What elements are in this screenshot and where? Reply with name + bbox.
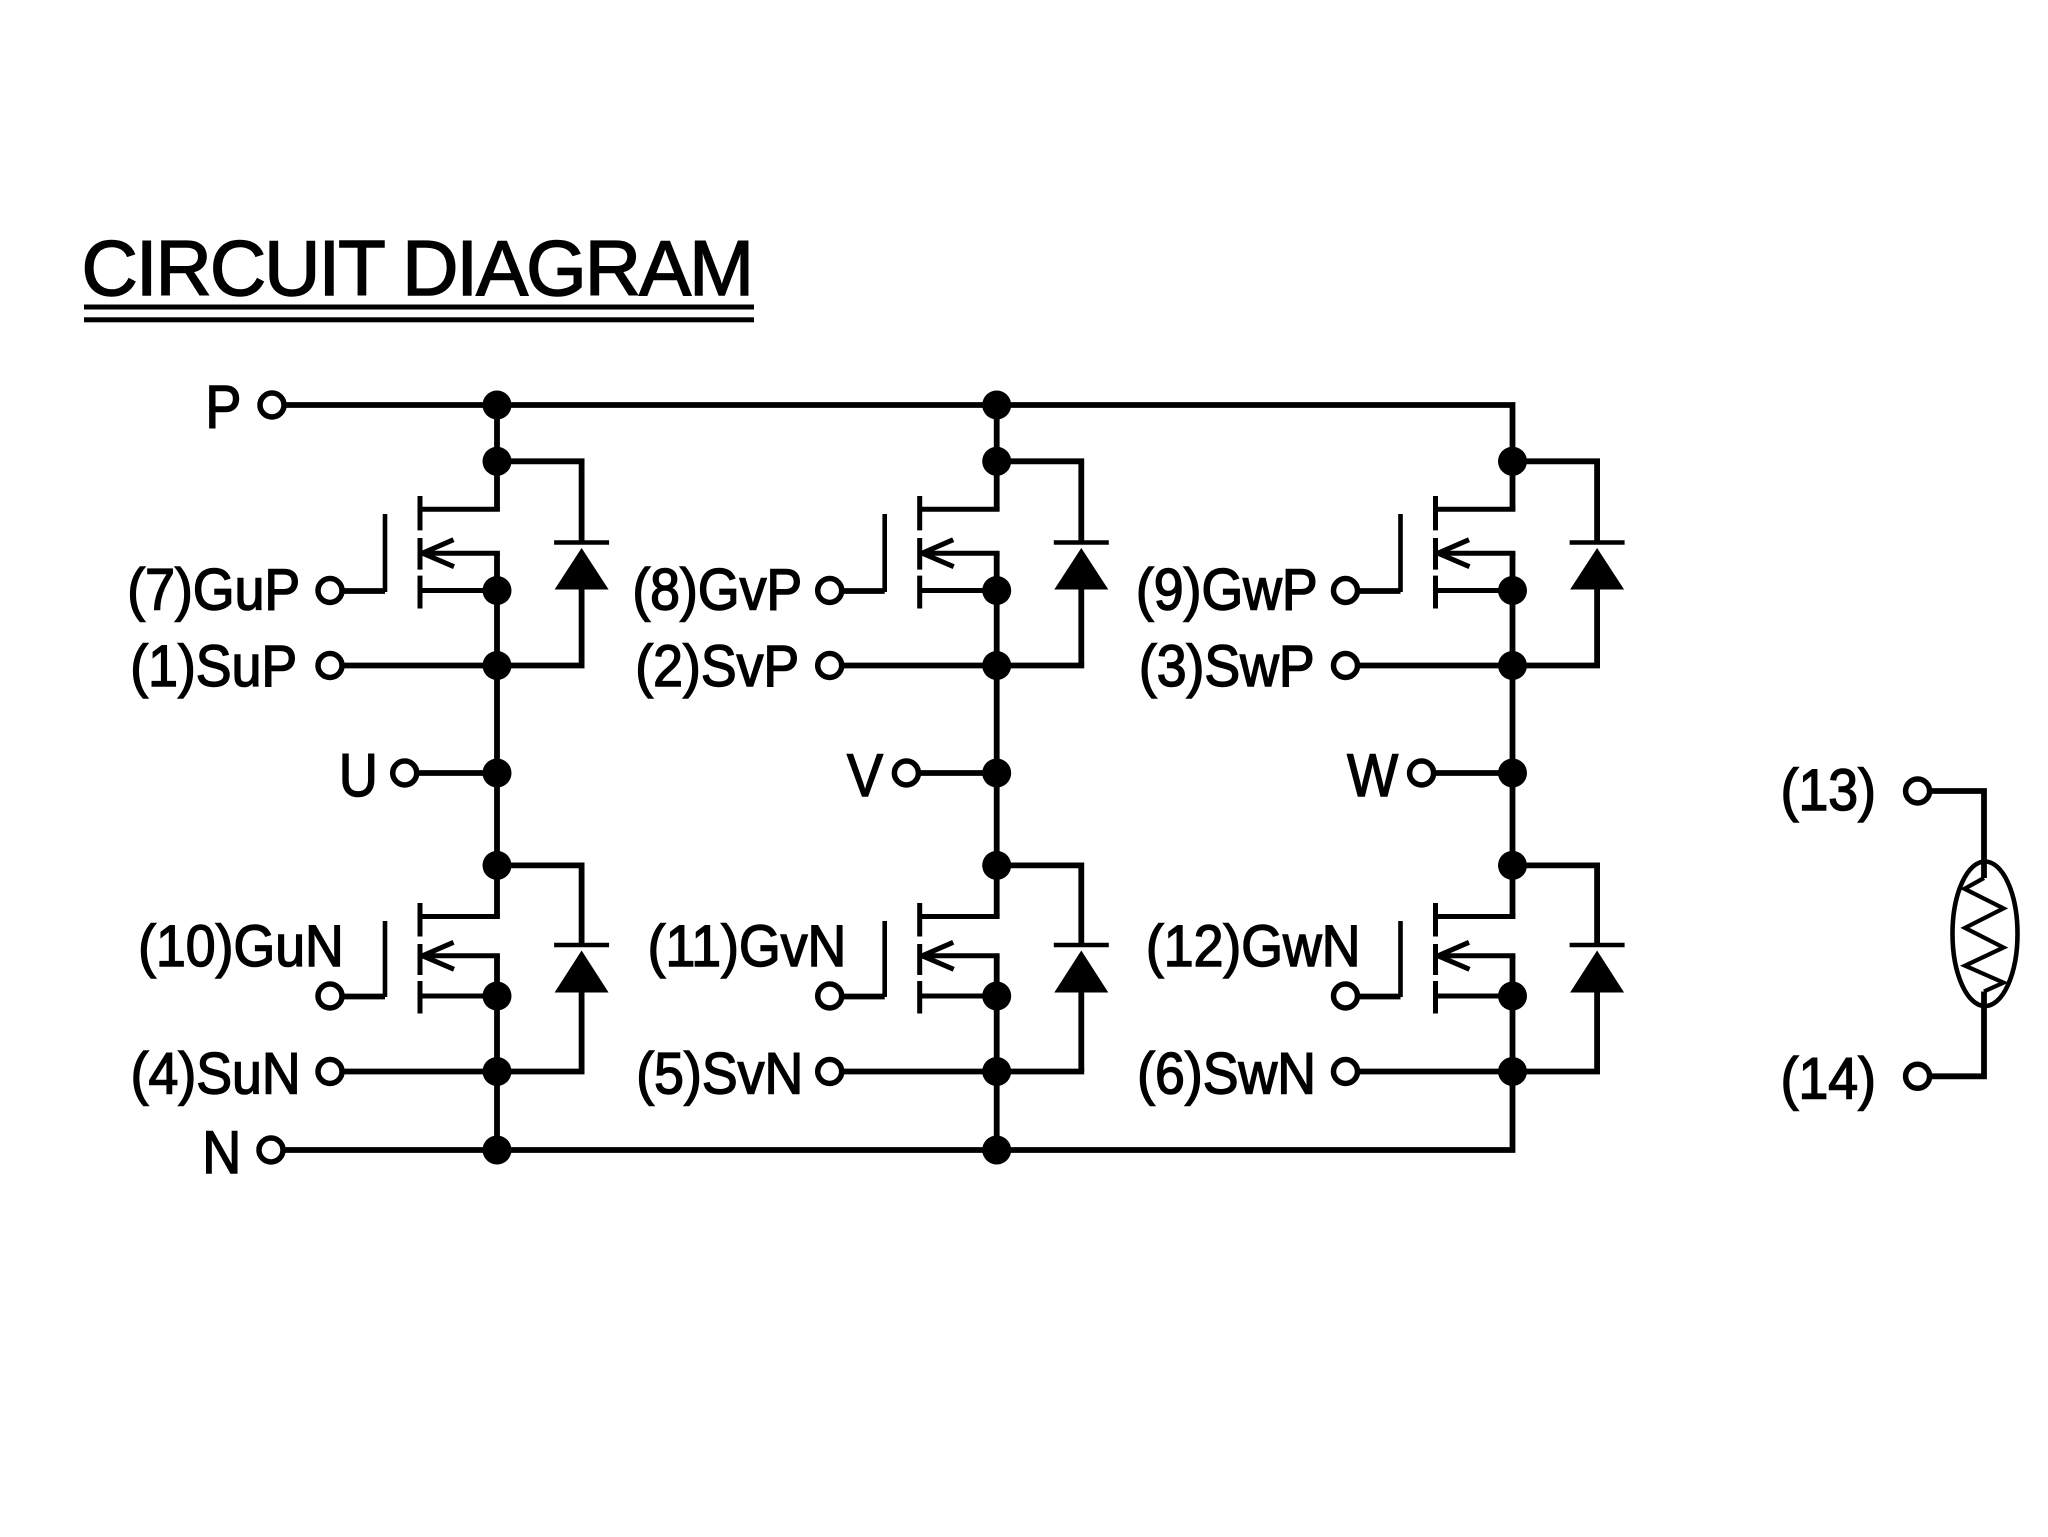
diode D2 (freewheel across Q2) (997, 461, 1109, 665)
wire leg V upper vertical (P rail to drain) (994, 405, 1000, 509)
wire leg W middle vertical (body Q3 through W node to drain Q6) (1510, 553, 1516, 916)
svg-text:P: P (205, 374, 241, 441)
wire leg U lower vertical (body Q4 to N rail) (494, 956, 500, 1150)
terminal (3)SwP source pin (1139, 633, 1358, 698)
node (4)SuN junction (483, 1057, 512, 1086)
diode D4 (freewheel across Q4) (497, 865, 609, 1071)
terminal (2)SvP source pin (635, 633, 841, 698)
svg-text:N: N (202, 1119, 241, 1186)
svg-text:W: W (1347, 742, 1398, 809)
transistor Q1 ((7)GuP upper MOSFET, phase U high side) (385, 496, 500, 609)
terminal (13) thermistor pin (1781, 757, 1930, 822)
node source junction Q4 (483, 982, 512, 1011)
node (6)SwN junction (1498, 1057, 1527, 1086)
terminal N (202, 1119, 283, 1186)
transistor Q3 ((9)GwP upper MOSFET, phase W high side) (1401, 496, 1516, 609)
wire leg U middle vertical (body Q1 through U node to drain Q4) (494, 553, 500, 916)
svg-text:(4)SuN: (4)SuN (131, 1041, 301, 1106)
svg-text:U: U (339, 742, 378, 809)
svg-text:(2)SvP: (2)SvP (635, 633, 799, 698)
node phase V junction (982, 759, 1011, 788)
svg-text:(3)SwP: (3)SwP (1139, 633, 1315, 698)
svg-text:V: V (847, 742, 883, 809)
node (2)SvP junction (982, 651, 1011, 680)
terminal phase V output (847, 742, 997, 809)
node drain/diode split lower leg U (483, 851, 512, 880)
wire (3)SwP to diode D3 anode (1359, 663, 1600, 669)
node (1)SuP junction (483, 651, 512, 680)
diode D3 (freewheel across Q3) (1513, 461, 1625, 665)
terminal P (205, 374, 284, 441)
wire P rail (287, 405, 1513, 509)
node phase W junction (1498, 759, 1527, 788)
wire (1)SuP to diode D1 anode (344, 663, 585, 669)
terminal (10)GuN gate pin (138, 913, 385, 1008)
wire thermistor RT to (14) (1931, 992, 1984, 1077)
wire leg V middle vertical (body Q2 through V node to drain Q5) (994, 553, 1000, 916)
svg-text:(14): (14) (1781, 1046, 1876, 1111)
terminal (11)GvN gate pin (648, 913, 885, 1008)
wire (4)SuN to diode D4 anode (344, 1069, 585, 1075)
terminal (4)SuN source pin (131, 1041, 342, 1106)
node drain/diode split lower leg W (1498, 851, 1527, 880)
terminal (12)GwN gate pin (1146, 913, 1401, 1008)
svg-text:(5)SvN: (5)SvN (636, 1041, 803, 1106)
node drain/diode split upper leg V (982, 447, 1011, 476)
wire (13) to thermistor RT (1931, 791, 1984, 878)
transistor Q2 ((8)GvP upper MOSFET, phase V high side) (885, 496, 1000, 609)
svg-text:(8)GvP: (8)GvP (632, 557, 802, 622)
transistor Q5 ((11)GvN lower MOSFET, phase V low side) (885, 903, 1000, 1014)
wire (2)SvP to diode D2 anode (844, 663, 1085, 669)
node P rail junction leg U (483, 391, 512, 420)
node (3)SwP junction (1498, 651, 1527, 680)
wire leg V lower vertical (body Q5 to N rail) (994, 956, 1000, 1150)
node source junction Q1 (483, 576, 512, 605)
node P rail junction leg V (982, 391, 1011, 420)
terminal phase W output (1347, 742, 1512, 809)
svg-text:(10)GuN: (10)GuN (138, 913, 344, 978)
terminal (14) thermistor pin (1781, 1046, 1930, 1111)
node source junction Q3 (1498, 576, 1527, 605)
svg-text:(1)SuP: (1)SuP (130, 633, 297, 698)
diode D5 (freewheel across Q5) (997, 865, 1109, 1071)
wire leg U upper vertical (P rail to drain) (494, 405, 500, 509)
wire N rail (286, 956, 1513, 1150)
svg-text:(7)GuP: (7)GuP (127, 557, 300, 622)
terminal (8)GvP gate pin (632, 557, 884, 622)
title CIRCUIT DIAGRAM (82, 224, 755, 322)
terminal phase U output (339, 742, 497, 809)
svg-text:(13): (13) (1781, 757, 1876, 822)
transistor Q6 ((12)GwN lower MOSFET, phase W low side) (1401, 903, 1516, 1014)
node (5)SvN junction (982, 1057, 1011, 1086)
node source junction Q6 (1498, 982, 1527, 1011)
svg-text:CIRCUIT DIAGRAM: CIRCUIT DIAGRAM (82, 224, 753, 312)
terminal (9)GwP gate pin (1136, 557, 1401, 622)
diode D6 (freewheel across Q6) (1513, 865, 1625, 1071)
terminal (6)SwN source pin (1137, 1041, 1357, 1106)
diode D1 (freewheel across Q1) (497, 461, 609, 665)
node source junction Q2 (982, 576, 1011, 605)
terminal (1)SuP source pin (130, 633, 342, 698)
terminal (7)GuP gate pin (127, 557, 385, 622)
terminal (5)SvN source pin (636, 1041, 841, 1106)
transistor Q4 ((10)GuN lower MOSFET, phase U low side) (385, 903, 500, 1014)
svg-text:(9)GwP: (9)GwP (1136, 557, 1318, 622)
node drain/diode split upper leg U (483, 447, 512, 476)
svg-text:(12)GwN: (12)GwN (1146, 913, 1361, 978)
svg-text:(11)GvN: (11)GvN (648, 913, 847, 978)
wire (5)SvN to diode D5 anode (844, 1069, 1085, 1075)
svg-text:(6)SwN: (6)SwN (1137, 1041, 1316, 1106)
node source junction Q5 (982, 982, 1011, 1011)
thermistor RT (1953, 862, 2018, 1007)
wire (6)SwN to diode D6 anode (1359, 1069, 1600, 1075)
node N rail junction leg V (982, 1136, 1011, 1165)
node drain/diode split upper leg W (1498, 447, 1527, 476)
node phase U junction (483, 759, 512, 788)
node drain/diode split lower leg V (982, 851, 1011, 880)
node N rail junction leg U (483, 1136, 512, 1165)
